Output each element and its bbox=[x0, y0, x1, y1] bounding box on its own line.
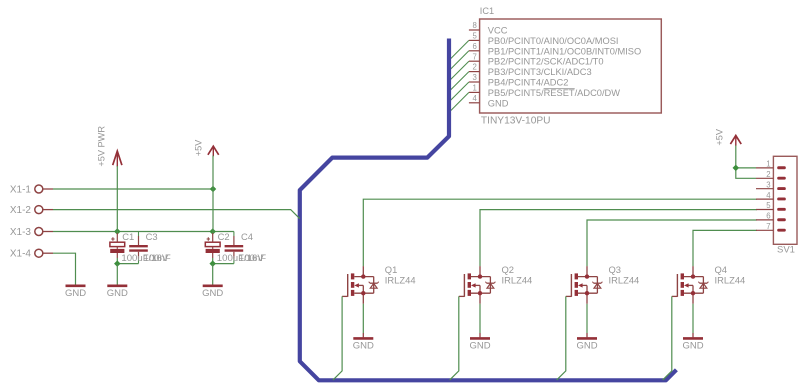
svg-text:GND: GND bbox=[65, 288, 86, 299]
node source junction dot of Q3 bbox=[585, 291, 589, 295]
ground -- GND under X1-4 bbox=[65, 286, 86, 299]
node pin number 3 of IC1 bbox=[472, 73, 476, 82]
svg-text:4: 4 bbox=[766, 191, 771, 200]
wire -- net from IC1 pin 6 to bus bbox=[450, 51, 469, 70]
node pin 4 of SV1 bbox=[756, 191, 786, 201]
wire -- IC1 pin 1 stub bbox=[469, 91, 480, 93]
svg-text:PB0/PCINT0/AIN0/OC0A/MOSI: PB0/PCINT0/AIN0/OC0A/MOSI bbox=[488, 36, 619, 46]
svg-text:PB4/PCINT4/ADC2: PB4/PCINT4/ADC2 bbox=[488, 78, 569, 88]
wire -- IC1 pin 7 stub bbox=[469, 60, 480, 62]
node pin number 1 of IC1 bbox=[472, 84, 476, 93]
wire -- IC1 pin 6 stub bbox=[469, 50, 480, 52]
node pin name PB3 of IC1 bbox=[488, 67, 592, 77]
svg-text:+5V: +5V bbox=[194, 139, 204, 156]
wire -- net X1-2 to bus bbox=[53, 210, 300, 219]
svg-text:7: 7 bbox=[472, 52, 476, 61]
wire -- drain net of Q2 to SV1 bbox=[480, 210, 757, 267]
node IRLZ44 value of Q3 bbox=[609, 275, 640, 286]
wire -- IC1 pin 8 stub bbox=[469, 29, 480, 31]
wire -- gate net of Q1 to bus bbox=[333, 296, 342, 380]
svg-text:+5V: +5V bbox=[715, 128, 725, 145]
node junction on X1-1 net at +5V bbox=[210, 186, 217, 193]
node Q1 label bbox=[385, 264, 398, 275]
node drain junction dot of Q2 bbox=[478, 274, 482, 278]
wire -- +5V net to SV1 pins 1-2 bbox=[736, 146, 756, 179]
svg-text:1: 1 bbox=[766, 160, 770, 169]
node pin name PB1 of IC1 bbox=[488, 46, 641, 56]
svg-text:GND: GND bbox=[576, 341, 597, 352]
wire -- source net of Q3 to ground bbox=[586, 304, 588, 338]
svg-text:PB5/PCINT5/RESET/ADC0/DW: PB5/PCINT5/RESET/ADC0/DW bbox=[488, 88, 620, 98]
wire -- C1 net to ground bbox=[116, 264, 118, 285]
svg-text:8: 8 bbox=[472, 21, 476, 30]
capacitor C4 bbox=[225, 231, 253, 263]
node pin number 8 of IC1 bbox=[472, 21, 476, 30]
node pin 1 of SV1 bbox=[756, 160, 786, 170]
wire -- net X1-4 to ground bbox=[53, 253, 76, 285]
wire -- net +5VPWR down to C1 bbox=[116, 166, 118, 233]
ground -- GND under C2 bbox=[202, 286, 223, 299]
wire -- C1/C3 bottom tie bbox=[117, 263, 138, 265]
node pin 2 of SV1 bbox=[756, 170, 786, 180]
node pin 7 of SV1 bbox=[756, 222, 786, 232]
svg-text:4: 4 bbox=[472, 94, 477, 103]
svg-text:GND: GND bbox=[682, 341, 703, 352]
svg-text:7: 7 bbox=[766, 222, 770, 231]
node IRLZ44 value of Q4 bbox=[715, 275, 746, 286]
power +5V arrow (right) bbox=[715, 128, 742, 145]
node junction X1-3 rail at C2 bbox=[209, 228, 216, 235]
wire -- net from IC1 pin 5 to bus bbox=[450, 40, 469, 59]
node pin 5 of SV1 bbox=[756, 201, 786, 211]
svg-text:6: 6 bbox=[472, 42, 476, 51]
node value 100uF/16V of C1 bbox=[121, 253, 169, 264]
node source junction dot of Q1 bbox=[361, 291, 365, 295]
wire -- +5V net to SV1 pin 1 bbox=[736, 167, 756, 169]
node junction X1-3 rail at C1 bbox=[114, 228, 121, 235]
transistor Q4 IRLZ44 bbox=[672, 266, 709, 304]
wire -- gate net of Q3 to bus bbox=[557, 296, 566, 380]
transistor Q3 IRLZ44 bbox=[566, 266, 603, 304]
wire -- IC1 pin 5 stub bbox=[469, 39, 480, 41]
wire -- net from IC1 pin 7 to bus bbox=[450, 61, 469, 80]
node value 100uF/16V of C2 bbox=[217, 253, 265, 264]
wire -- IC1 pin 3 stub bbox=[469, 81, 480, 83]
node junction +5V at SV1 pin1 bbox=[733, 165, 740, 172]
node drain junction dot of Q3 bbox=[585, 274, 589, 278]
wire -- C2 net to ground bbox=[212, 264, 214, 285]
transistor Q1 IRLZ44 bbox=[342, 266, 379, 304]
wire -- thick blue bus bbox=[300, 39, 677, 381]
node pin number 5 of IC1 bbox=[472, 32, 477, 41]
node junction below C1 bbox=[114, 260, 121, 267]
node pin number 4 of IC1 bbox=[472, 94, 477, 103]
svg-text:IC1: IC1 bbox=[480, 6, 494, 16]
wire -- net X1-3 rail bbox=[53, 231, 234, 233]
svg-text:X1-4: X1-4 bbox=[10, 249, 32, 260]
svg-text:GND: GND bbox=[353, 341, 374, 352]
svg-text:C2: C2 bbox=[218, 231, 230, 242]
svg-text:PB2/PCINT2/SCK/ADC1/T0: PB2/PCINT2/SCK/ADC1/T0 bbox=[488, 57, 604, 67]
node pin name PB5 of IC1 bbox=[488, 88, 620, 98]
svg-text:GND: GND bbox=[107, 288, 128, 299]
svg-text:GND: GND bbox=[469, 341, 490, 352]
svg-text:X1-3: X1-3 bbox=[10, 227, 32, 238]
svg-text:PB3/PCINT3/CLKI/ADC3: PB3/PCINT3/CLKI/ADC3 bbox=[488, 67, 592, 77]
node X1-1 -- connector pad bbox=[10, 184, 53, 195]
wire -- source net of Q2 to ground bbox=[479, 304, 481, 338]
svg-text:PB1/PCINT1/AIN1/OC0B/INT0/MISO: PB1/PCINT1/AIN1/OC0B/INT0/MISO bbox=[488, 46, 641, 56]
svg-text:C4: C4 bbox=[241, 231, 253, 242]
svg-text:Q4: Q4 bbox=[715, 264, 728, 275]
wire -- net from IC1 pin 3 to bus bbox=[450, 82, 469, 101]
wire -- net from IC1 pin 2 to bus bbox=[450, 72, 469, 91]
node drain junction dot of Q1 bbox=[361, 274, 365, 278]
node pin number 2 of IC1 bbox=[472, 63, 476, 72]
node drain junction dot of Q4 bbox=[691, 274, 695, 278]
wire -- IC1 pin 4 stub bbox=[469, 102, 480, 104]
power +5V PWR arrow bbox=[97, 126, 122, 167]
node pin 6 of SV1 bbox=[756, 212, 786, 222]
transistor Q2 IRLZ44 bbox=[459, 266, 496, 304]
wire -- gate net of Q4 to bus bbox=[663, 296, 672, 380]
node TINY13V-10PU -- part value label bbox=[481, 116, 551, 127]
svg-text:GND: GND bbox=[202, 288, 223, 299]
svg-text:6: 6 bbox=[766, 212, 770, 221]
node IRLZ44 value of Q2 bbox=[502, 275, 533, 286]
node pin number 7 of IC1 bbox=[472, 52, 476, 61]
wire -- C2/C4 bottom tie bbox=[213, 263, 234, 265]
svg-text:VCC: VCC bbox=[488, 26, 508, 36]
ground -- GND under Q4 bbox=[682, 338, 703, 351]
wire -- drain net of Q3 to SV1 bbox=[587, 220, 757, 266]
wire -- source net of Q4 to ground bbox=[692, 304, 694, 338]
node X1-4 -- connector pad bbox=[10, 249, 53, 260]
wire -- gate net of Q2 to bus bbox=[450, 296, 459, 380]
svg-text:1: 1 bbox=[472, 84, 476, 93]
node Q4 label bbox=[715, 264, 728, 275]
svg-text:Q1: Q1 bbox=[385, 264, 398, 275]
capacitor C2 bbox=[205, 231, 229, 263]
wire -- drain net of Q1 to SV1 bbox=[363, 199, 757, 266]
svg-text:Q2: Q2 bbox=[502, 264, 515, 275]
node pin name GND of IC1 bbox=[488, 98, 509, 108]
capacitor C3 bbox=[129, 231, 157, 263]
capacitor C1 bbox=[110, 231, 134, 263]
node Q3 label bbox=[609, 264, 622, 275]
svg-text:X1-1: X1-1 bbox=[10, 184, 32, 195]
node X1-2 -- connector pad bbox=[10, 205, 53, 216]
node Q2 label bbox=[502, 264, 515, 275]
svg-text:2: 2 bbox=[766, 170, 770, 179]
node pin number 6 of IC1 bbox=[472, 42, 476, 51]
svg-text:IRLZ44: IRLZ44 bbox=[609, 275, 640, 286]
svg-text:100nF: 100nF bbox=[239, 253, 266, 264]
node pin name PB2 of IC1 bbox=[488, 57, 604, 67]
power +5V arrow (middle) bbox=[194, 139, 219, 156]
svg-text:C3: C3 bbox=[146, 231, 158, 242]
IC IC1 TINY13V-10PU box bbox=[480, 19, 662, 113]
svg-text:2: 2 bbox=[472, 63, 476, 72]
node value 100nF of C4 bbox=[239, 253, 266, 264]
ground -- GND under Q1 bbox=[353, 338, 374, 351]
node junction below C2 bbox=[209, 260, 216, 267]
node X1-3 -- connector pad bbox=[10, 227, 53, 238]
node pin name PB4 of IC1 bbox=[488, 78, 569, 88]
svg-text:+5V PWR: +5V PWR bbox=[97, 126, 107, 167]
svg-text:SV1: SV1 bbox=[777, 245, 795, 256]
svg-text:IRLZ44: IRLZ44 bbox=[385, 275, 416, 286]
svg-text:C1: C1 bbox=[122, 231, 134, 242]
wire -- net from IC1 pin 1 to bus bbox=[450, 92, 469, 111]
wire -- net X1-1 to +5V bbox=[53, 188, 213, 190]
ground -- GND under Q3 bbox=[576, 338, 597, 351]
svg-text:GND: GND bbox=[488, 98, 509, 108]
ground -- GND under C1 bbox=[107, 286, 128, 299]
node value 100nF of C3 bbox=[144, 253, 171, 264]
node pin name VCC of IC1 bbox=[488, 26, 508, 36]
svg-text:Q3: Q3 bbox=[609, 264, 622, 275]
svg-text:IRLZ44: IRLZ44 bbox=[715, 275, 746, 286]
svg-text:X1-2: X1-2 bbox=[10, 205, 32, 216]
svg-text:IRLZ44: IRLZ44 bbox=[502, 275, 533, 286]
svg-text:5: 5 bbox=[472, 32, 477, 41]
node IRLZ44 value of Q1 bbox=[385, 275, 416, 286]
wire -- net +5V down to C2 bbox=[212, 156, 214, 234]
node source junction dot of Q2 bbox=[478, 291, 482, 295]
svg-text:3: 3 bbox=[472, 73, 476, 82]
node pin 3 of SV1 bbox=[756, 180, 786, 190]
node SV1 label bbox=[777, 245, 795, 256]
wire -- source net of Q1 to ground bbox=[362, 304, 364, 338]
ground -- GND under Q2 bbox=[469, 338, 490, 351]
svg-text:5: 5 bbox=[766, 201, 771, 210]
node source junction dot of Q4 bbox=[691, 291, 695, 295]
node IC1 -- part name label bbox=[480, 6, 494, 16]
wire -- drain net of Q4 to SV1 bbox=[693, 230, 757, 266]
svg-text:TINY13V-10PU: TINY13V-10PU bbox=[481, 116, 551, 127]
connector SV1 box bbox=[773, 156, 797, 244]
svg-text:3: 3 bbox=[766, 180, 770, 189]
wire -- IC1 pin 2 stub bbox=[469, 71, 480, 73]
svg-text:100nF: 100nF bbox=[144, 253, 171, 264]
node pin name PB0 of IC1 bbox=[488, 36, 619, 46]
